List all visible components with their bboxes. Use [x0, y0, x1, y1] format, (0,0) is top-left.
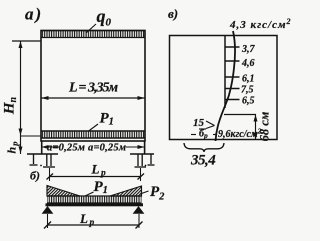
top dimension Lp of beam: [47, 162, 145, 182]
tick 6,5: [225, 99, 240, 101]
tick 6,1: [225, 76, 240, 78]
svg-text:Lр: Lр: [91, 162, 108, 179]
svg-text:15: 15: [193, 117, 205, 129]
tick 3,7: [225, 46, 240, 48]
panel left edge stub: [41, 141, 43, 154]
svg-text:P1: P1: [94, 179, 108, 196]
svg-text:6,5: 6,5: [242, 96, 255, 107]
svg-text:а): а): [25, 5, 43, 24]
svg-text:q0: q0: [97, 6, 112, 29]
label sigma p with overbar and dash: [191, 129, 216, 141]
dimension Hp vertical line: [12, 41, 41, 154]
panel right edge stub: [144, 141, 146, 154]
dimension a=0,25m a=0,25m: [42, 143, 145, 154]
label P1 on beam with leader: [85, 179, 108, 196]
stress curve: [216, 31, 236, 141]
stress diagram rectangle: [170, 36, 278, 140]
panel outline: [41, 31, 145, 142]
label q0 with leader: [86, 6, 112, 33]
label 15 with arrow: [193, 117, 215, 129]
right support column: [130, 154, 155, 167]
svg-text:4,3 кгс/см2: 4,3 кгс/см2: [229, 17, 291, 31]
stress axis vertical line: [224, 36, 226, 109]
svg-text:Hп: Hп: [2, 96, 20, 115]
distributed load q0 hatch strip: [41, 31, 145, 38]
beam load strip: [47, 196, 142, 203]
label P2 with leader: [140, 184, 165, 203]
dimension 68 cm: [254, 111, 272, 141]
svg-text:L = 3,35м: L = 3,35м: [68, 81, 119, 96]
svg-text:бр: бр: [199, 129, 208, 141]
load P1 hatch strip inside panel: [41, 131, 145, 138]
svg-text:б): б): [30, 169, 40, 183]
right support triangle: [134, 207, 143, 213]
beam body thick line: [46, 203, 144, 206]
svg-text:P2: P2: [150, 184, 165, 203]
svg-text:7,5: 7,5: [241, 85, 254, 96]
bottom dimension Lp: [44, 211, 143, 229]
tick 4,6: [225, 60, 240, 62]
left support column: [27, 154, 58, 167]
svg-text:P1: P1: [100, 111, 114, 128]
svg-text:35,4: 35,4: [190, 153, 216, 169]
svg-text:9,6кгс/см2: 9,6кгс/см2: [218, 128, 262, 141]
sigma level extension line: [224, 114, 256, 116]
underbrace: [184, 143, 224, 152]
svg-text:hр: hр: [5, 141, 20, 154]
beam right end triangle: [110, 186, 142, 196]
svg-text:а=0,25м а=0,25м: а=0,25м а=0,25м: [47, 143, 126, 154]
svg-text:4,6: 4,6: [241, 58, 255, 69]
left support triangle: [43, 207, 52, 213]
svg-text:в): в): [168, 6, 178, 21]
tick 7,5: [225, 88, 240, 90]
svg-text:3,7: 3,7: [241, 44, 256, 55]
label P1 with leader: [88, 111, 114, 132]
svg-text:6,1: 6,1: [242, 74, 255, 85]
beam left end triangle: [47, 186, 80, 197]
svg-text:68 см: 68 см: [258, 111, 272, 141]
dimension L=3,35m: [42, 81, 145, 101]
svg-text:Lр: Lр: [79, 211, 96, 228]
